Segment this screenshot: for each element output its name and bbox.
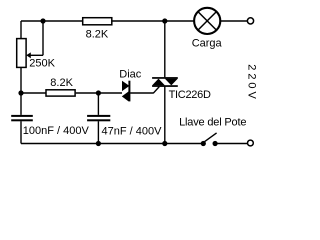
svg-text:Diac: Diac — [119, 68, 142, 80]
svg-text:TIC226D: TIC226D — [169, 89, 211, 101]
svg-text:Llave del Pote: Llave del Pote — [179, 117, 246, 129]
svg-text:250K: 250K — [29, 58, 55, 70]
svg-text:8.2K: 8.2K — [50, 77, 73, 89]
svg-text:47nF / 400V: 47nF / 400V — [102, 125, 163, 137]
svg-text:100nF / 400V: 100nF / 400V — [23, 125, 90, 137]
svg-text:220V: 220V — [245, 64, 257, 102]
svg-text:Carga: Carga — [192, 37, 223, 49]
svg-text:8.2K: 8.2K — [86, 29, 109, 41]
